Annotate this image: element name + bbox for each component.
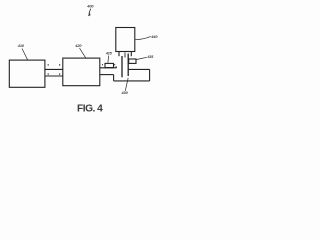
injector tube left wall — [121, 56, 123, 77]
svg-text:400: 400 — [86, 3, 94, 8]
injector tube right wall — [127, 54, 129, 77]
pipe bottom lower line — [114, 80, 150, 82]
svg-text:440: 440 — [150, 34, 158, 39]
sensor box 435 — [129, 59, 136, 63]
arrow 400 — [89, 9, 91, 14]
pipe top right line — [128, 68, 149, 70]
pipe top line — [100, 67, 117, 69]
leg 440 right — [130, 52, 132, 57]
leader 430 — [125, 78, 128, 91]
svg-text:430: 430 — [120, 90, 128, 95]
tick 422 — [102, 64, 103, 66]
pipe top end blob — [116, 66, 117, 68]
leader 425 — [107, 56, 110, 63]
injector box 425 — [105, 63, 114, 67]
leader 410 — [22, 49, 28, 60]
tick 416b — [59, 64, 60, 66]
svg-text:420: 420 — [74, 43, 82, 48]
pipe right edge — [149, 69, 151, 81]
box 420 — [63, 58, 100, 86]
tick 416a — [48, 64, 49, 66]
tick 424 — [114, 64, 115, 66]
svg-text:425: 425 — [105, 52, 113, 56]
pipe step — [113, 75, 115, 81]
leg 440 left — [118, 52, 120, 57]
injector stub middle — [124, 53, 126, 58]
svg-text:410: 410 — [17, 43, 25, 48]
tick 418b — [59, 73, 60, 75]
leader 440 — [135, 36, 151, 39]
leader 420 — [80, 48, 86, 58]
leader 435 — [136, 57, 147, 59]
svg-text:FIG. 4: FIG. 4 — [77, 104, 103, 115]
svg-text:435: 435 — [146, 55, 154, 59]
tick 418a — [48, 73, 49, 75]
box 410 — [9, 60, 45, 87]
wire connector lower — [45, 75, 63, 77]
wire connector upper — [45, 68, 63, 70]
box 440 — [116, 28, 135, 52]
pipe bottom upper line — [100, 74, 114, 76]
